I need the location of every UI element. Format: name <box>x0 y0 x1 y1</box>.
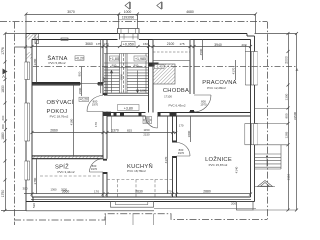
svg-text:1000: 1000 <box>124 10 132 14</box>
svg-text:1800: 1800 <box>187 130 191 137</box>
svg-text:300: 300 <box>22 187 27 191</box>
svg-text:CHODBA: CHODBA <box>163 88 189 94</box>
svg-text:OBÝVACÍ: OBÝVACÍ <box>46 99 73 106</box>
svg-text:+1,80: +1,80 <box>110 57 119 61</box>
svg-text:2630: 2630 <box>135 190 143 194</box>
svg-text:+0,20: +0,20 <box>75 57 84 61</box>
svg-text:2000: 2000 <box>284 56 288 64</box>
svg-text:LOŽNICE: LOŽNICE <box>205 155 232 163</box>
svg-text:+1,985: +1,985 <box>135 57 146 61</box>
svg-text:1880: 1880 <box>1 132 5 140</box>
svg-text:+0,950: +0,950 <box>123 42 134 46</box>
svg-text:170: 170 <box>103 42 108 46</box>
svg-text:1970: 1970 <box>200 102 207 106</box>
svg-text:200: 200 <box>241 43 246 47</box>
svg-text:170: 170 <box>179 123 184 127</box>
svg-text:-1,40: -1,40 <box>156 65 163 69</box>
svg-text:2110: 2110 <box>287 173 291 180</box>
svg-text:600: 600 <box>1 115 5 120</box>
svg-text:PVC 5,05m2: PVC 5,05m2 <box>48 61 65 65</box>
svg-text:17100: 17100 <box>164 94 172 98</box>
svg-text:175: 175 <box>179 42 184 46</box>
svg-text:4500: 4500 <box>199 48 203 55</box>
svg-text:1360: 1360 <box>51 187 57 191</box>
svg-text:150: 150 <box>143 42 148 46</box>
svg-text:1200: 1200 <box>140 89 147 93</box>
svg-text:900: 900 <box>134 64 139 68</box>
svg-text:4180: 4180 <box>70 118 74 125</box>
svg-text:1970: 1970 <box>144 120 150 124</box>
svg-text:170: 170 <box>166 190 171 194</box>
svg-text:900: 900 <box>78 71 82 76</box>
svg-text:1970: 1970 <box>91 167 98 171</box>
svg-text:1370: 1370 <box>111 129 119 133</box>
svg-text:520: 520 <box>32 203 36 208</box>
svg-text:2100: 2100 <box>167 42 175 46</box>
svg-text:1970: 1970 <box>178 151 185 155</box>
svg-text:2280: 2280 <box>33 58 37 65</box>
svg-text:+3,80: +3,80 <box>124 106 133 110</box>
svg-text:4170: 4170 <box>232 67 236 74</box>
svg-text:2660: 2660 <box>50 129 58 133</box>
svg-text:200: 200 <box>231 202 236 206</box>
svg-text:1500: 1500 <box>78 87 82 94</box>
svg-text:170: 170 <box>94 190 99 194</box>
svg-text:825: 825 <box>127 129 132 133</box>
svg-text:4680: 4680 <box>186 10 194 14</box>
svg-text:1800: 1800 <box>103 76 107 83</box>
svg-text:31500: 31500 <box>293 111 297 120</box>
svg-text:2780: 2780 <box>33 177 37 184</box>
svg-text:2900: 2900 <box>120 74 124 80</box>
svg-text:PVC 12,28m2: PVC 12,28m2 <box>207 86 226 90</box>
svg-text:A: A <box>296 67 299 72</box>
svg-text:170: 170 <box>94 122 98 127</box>
svg-text:2030: 2030 <box>61 187 67 191</box>
svg-text:4170: 4170 <box>164 156 168 163</box>
svg-text:3660: 3660 <box>85 42 93 46</box>
svg-text:3070: 3070 <box>67 10 75 14</box>
svg-text:PVC 6,43m2: PVC 6,43m2 <box>168 104 185 108</box>
svg-text:PVC 3,44m2: PVC 3,44m2 <box>57 170 74 174</box>
svg-text:2880: 2880 <box>203 190 211 194</box>
svg-text:800: 800 <box>1 124 5 129</box>
svg-text:175: 175 <box>96 42 101 46</box>
svg-text:PVC 18,76m2: PVC 18,76m2 <box>50 114 69 118</box>
svg-text:A: A <box>2 74 5 79</box>
svg-text:1300: 1300 <box>284 93 288 100</box>
svg-text:1285: 1285 <box>284 131 288 138</box>
svg-text:2150: 2150 <box>143 132 150 136</box>
svg-text:3940: 3940 <box>214 43 222 47</box>
svg-text:+0,20: +0,20 <box>80 98 89 102</box>
svg-text:1776: 1776 <box>1 47 5 55</box>
svg-text:4140: 4140 <box>235 166 239 173</box>
svg-text:900: 900 <box>284 113 288 118</box>
svg-text:900: 900 <box>112 64 117 68</box>
svg-text:1830: 1830 <box>1 85 5 93</box>
svg-text:1750: 1750 <box>1 190 5 198</box>
svg-text:1970: 1970 <box>92 102 99 106</box>
svg-text:PVC 15,87m2: PVC 15,87m2 <box>209 163 228 167</box>
svg-text:1393090: 1393090 <box>122 16 135 20</box>
svg-text:PVC 18,78m2: PVC 18,78m2 <box>127 169 146 173</box>
